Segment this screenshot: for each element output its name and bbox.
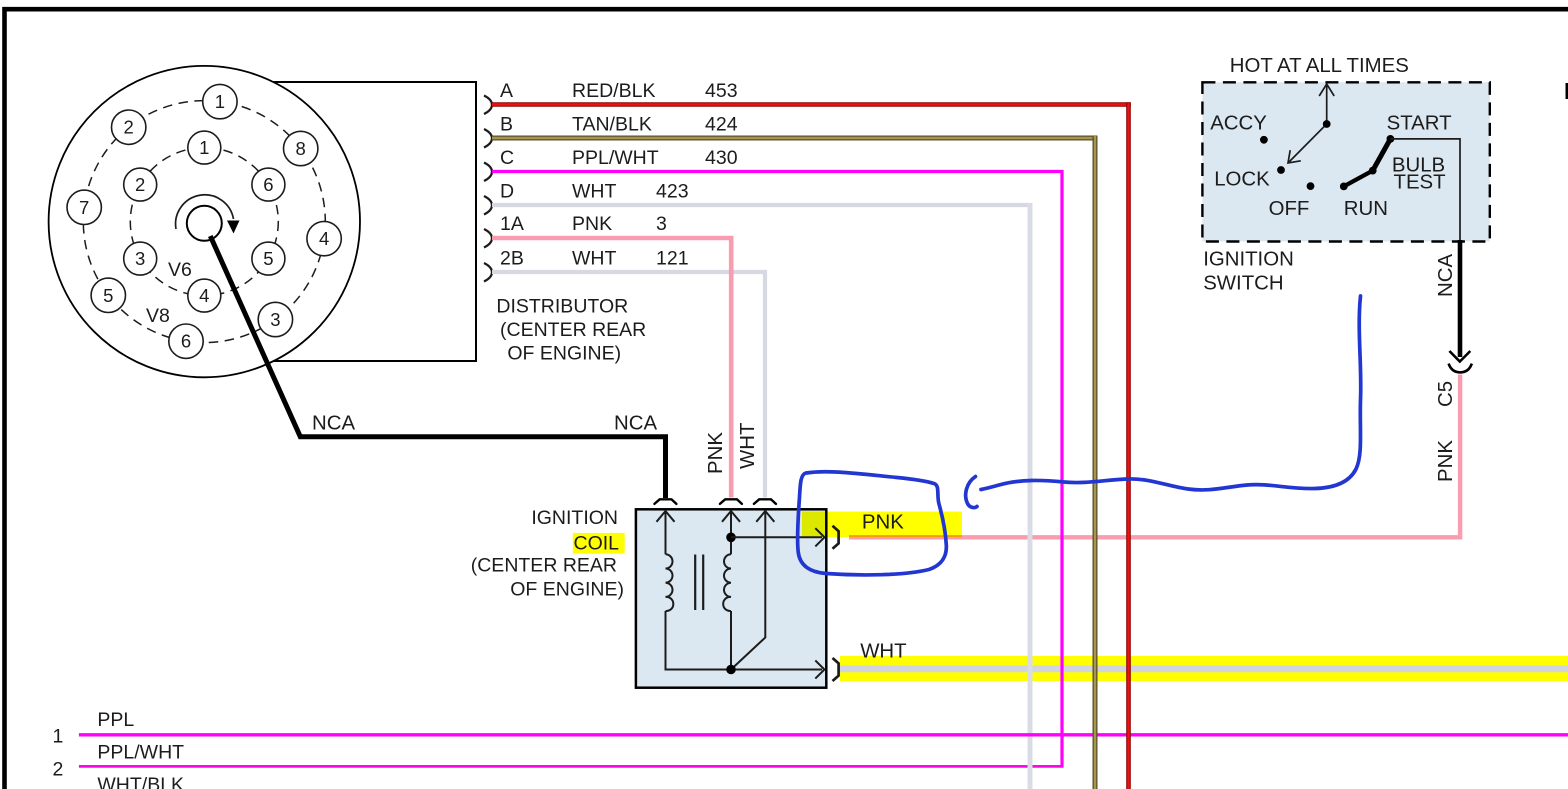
svg-text:(CENTER REAR: (CENTER REAR xyxy=(500,319,646,341)
svg-text:430: 430 xyxy=(705,147,738,169)
svg-text:8: 8 xyxy=(296,138,306,159)
svg-text:3: 3 xyxy=(656,213,667,235)
battery feed arrow xyxy=(1326,85,1328,125)
core lines xyxy=(694,555,696,611)
svg-text:PPL/WHT: PPL/WHT xyxy=(572,147,659,169)
connector C5 arrow xyxy=(1449,351,1470,362)
wire PNK from C5 down xyxy=(1458,375,1462,536)
svg-text:2: 2 xyxy=(124,117,134,138)
svg-text:C5: C5 xyxy=(1435,381,1457,407)
svg-text:2: 2 xyxy=(53,758,64,780)
svg-text:TAN/BLK: TAN/BLK xyxy=(572,114,652,136)
wire PPL/WHT horizontal (line 2) xyxy=(79,765,1064,768)
output bracket WHT xyxy=(833,658,839,681)
svg-text:DISTRIBUTOR: DISTRIBUTOR xyxy=(496,296,628,318)
blue pen loop around PNK xyxy=(798,472,947,575)
yellow highlight COIL (multiply) xyxy=(573,533,625,554)
wire C PPL/WHT vertical + turn to line 2 xyxy=(1060,170,1063,766)
cut-off character right edge xyxy=(1566,83,1568,99)
svg-text:OF ENGINE): OF ENGINE) xyxy=(507,342,621,364)
wire PPL horizontal (line 1) xyxy=(79,733,1568,736)
junction dot bottom xyxy=(726,665,736,675)
wire 2B WHT vertical to coil xyxy=(763,270,767,498)
wire NCA below switch xyxy=(1458,240,1463,357)
svg-text:COIL: COIL xyxy=(573,533,619,555)
svg-text:WHT: WHT xyxy=(860,641,906,663)
coil internal terminals (arrows up) xyxy=(657,511,775,522)
svg-text:WHT: WHT xyxy=(572,248,616,270)
distributor connector box xyxy=(270,82,476,361)
wire NCA (rotor to coil) xyxy=(210,236,665,498)
wire D WHT vertical xyxy=(1028,203,1033,789)
svg-text:HOT AT ALL TIMES: HOT AT ALL TIMES xyxy=(1230,55,1409,77)
svg-text:LOCK: LOCK xyxy=(1214,169,1270,191)
ignition switch box xyxy=(1202,82,1489,241)
junction dot top xyxy=(726,533,736,543)
yellow highlight PNK (multiply) xyxy=(802,512,962,538)
distributor cap circle xyxy=(49,66,360,377)
svg-text:PNK: PNK xyxy=(1435,440,1457,482)
svg-text:PPL: PPL xyxy=(97,709,134,731)
svg-text:IGNITION: IGNITION xyxy=(1203,248,1294,270)
pink C5 wire horizontal xyxy=(849,535,1462,539)
svg-text:7: 7 xyxy=(79,197,89,218)
svg-text:424: 424 xyxy=(705,114,738,136)
svg-text:(CENTER REAR: (CENTER REAR xyxy=(471,554,617,576)
secondary winding xyxy=(723,511,731,670)
wire B TAN/BLK 424 horizontal xyxy=(492,136,1097,141)
svg-text:A: A xyxy=(500,80,513,102)
ignition coil box xyxy=(636,509,826,687)
svg-text:RUN: RUN xyxy=(1344,198,1388,220)
svg-text:D: D xyxy=(500,181,514,203)
rotation arc arrow xyxy=(176,195,234,229)
svg-text:NCA: NCA xyxy=(1435,254,1457,297)
svg-text:1A: 1A xyxy=(500,213,524,235)
svg-text:NCA: NCA xyxy=(614,413,657,435)
svg-text:4: 4 xyxy=(319,228,329,249)
svg-text:WHT/BLK: WHT/BLK xyxy=(97,774,184,789)
wire B TAN/BLK vertical xyxy=(1093,136,1098,789)
svg-text:PNK: PNK xyxy=(572,213,612,235)
svg-text:OF ENGINE): OF ENGINE) xyxy=(510,579,624,601)
output arrow WHT xyxy=(815,660,824,678)
svg-text:4: 4 xyxy=(199,285,209,306)
yellow highlight WHT band xyxy=(840,656,1568,681)
contact BULB TEST-START xyxy=(1373,139,1391,171)
wire 1A PNK 3 horizontal xyxy=(492,236,734,240)
svg-text:C: C xyxy=(500,147,514,169)
output bracket PNK xyxy=(833,526,839,549)
svg-text:3: 3 xyxy=(135,248,145,269)
V8 pin numbers xyxy=(79,91,329,352)
svg-text:6: 6 xyxy=(263,174,273,195)
wire 2B WHT 121 horizontal xyxy=(492,270,767,274)
svg-text:ACCY: ACCY xyxy=(1210,113,1267,135)
wire from START contact xyxy=(1390,139,1460,242)
inner dashed circle (V6) xyxy=(130,148,278,296)
svg-text:2B: 2B xyxy=(500,248,524,270)
svg-text:IGNITION: IGNITION xyxy=(531,507,618,529)
svg-text:WHT: WHT xyxy=(572,181,616,203)
output line to PNK xyxy=(731,536,822,538)
outer dashed circle (V8) xyxy=(83,101,325,343)
WHT wire from coil (over band) xyxy=(840,665,1568,672)
svg-text:1: 1 xyxy=(215,91,225,112)
svg-text:TEST: TEST xyxy=(1394,172,1446,194)
svg-text:121: 121 xyxy=(656,248,689,270)
switch wiper arrow to LOCK xyxy=(1289,124,1327,163)
svg-text:6: 6 xyxy=(181,331,191,352)
svg-text:B: B xyxy=(500,114,513,136)
svg-text:PNK: PNK xyxy=(705,432,727,474)
rotor center xyxy=(187,206,222,241)
svg-text:WHT: WHT xyxy=(737,423,759,469)
V8 pin terminals xyxy=(67,84,341,358)
wire A RED/BLK 453 horizontal xyxy=(492,102,1131,107)
switch position dots xyxy=(1323,120,1331,128)
svg-text:SWITCH: SWITCH xyxy=(1203,273,1283,295)
V6 pin terminals xyxy=(124,131,285,312)
wire 1A PNK vertical to coil xyxy=(729,236,734,498)
svg-text:PPL/WHT: PPL/WHT xyxy=(97,741,184,763)
connector C5 socket xyxy=(1449,364,1472,373)
blue pen arrow curve xyxy=(981,296,1361,490)
svg-text:3: 3 xyxy=(270,309,280,330)
svg-text:2: 2 xyxy=(135,174,145,195)
svg-text:PNK: PNK xyxy=(862,512,904,534)
svg-text:RED/BLK: RED/BLK xyxy=(572,80,655,102)
V6 pin numbers xyxy=(135,137,273,306)
svg-text:OFF: OFF xyxy=(1269,198,1310,220)
contact RUN-BULB TEST xyxy=(1344,171,1373,187)
svg-text:1: 1 xyxy=(199,137,209,158)
svg-text:V6: V6 xyxy=(168,259,192,281)
svg-text:423: 423 xyxy=(656,181,689,203)
svg-text:5: 5 xyxy=(263,248,273,269)
svg-text:NCA: NCA xyxy=(312,413,355,435)
svg-text:5: 5 xyxy=(103,285,113,306)
svg-text:1: 1 xyxy=(53,726,64,748)
blue pen arrowhead xyxy=(966,477,977,508)
third terminal lead xyxy=(731,511,765,670)
wire A RED/BLK vertical xyxy=(1126,102,1131,789)
svg-text:V8: V8 xyxy=(146,305,170,327)
wire C PPL/WHT 430 horizontal xyxy=(492,170,1064,173)
coil top connector symbols xyxy=(654,499,776,504)
svg-text:453: 453 xyxy=(705,80,738,102)
connector pin brackets A-2B xyxy=(484,96,492,282)
wire D WHT 423 horizontal xyxy=(492,203,1032,207)
primary winding xyxy=(666,511,823,670)
svg-text:START: START xyxy=(1387,113,1452,135)
